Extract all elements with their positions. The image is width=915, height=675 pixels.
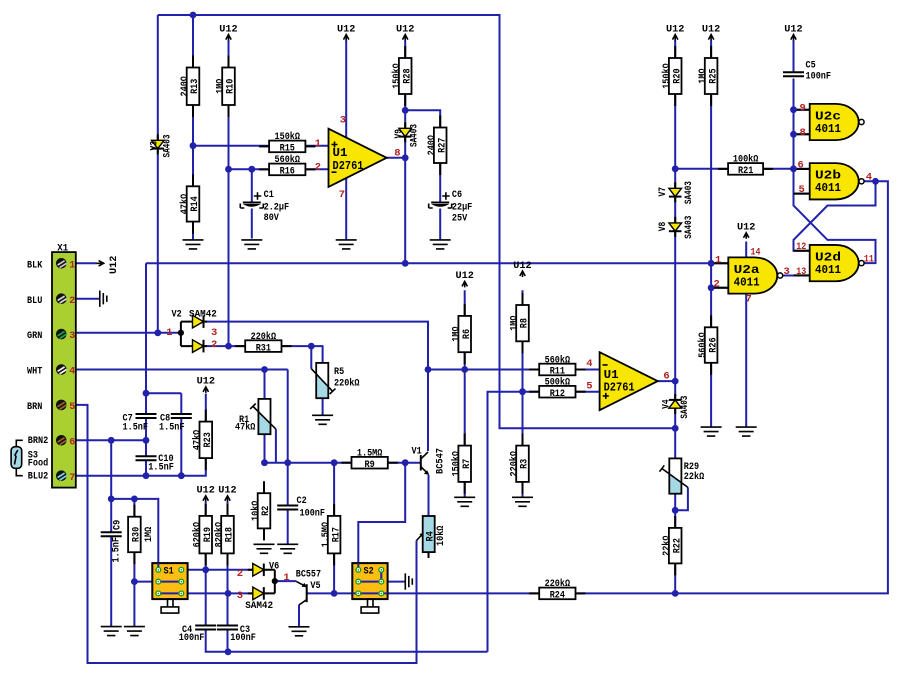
- wire R28 column: [404, 40, 406, 110]
- ground under R30: [124, 627, 145, 636]
- diode V8 SA403: [669, 223, 682, 231]
- X1 pin 2 BLU: [56, 293, 67, 304]
- ground under R7: [454, 497, 475, 506]
- svg-text:100nF: 100nF: [230, 633, 256, 644]
- svg-text:R7: R7: [462, 459, 473, 469]
- svg-text:80V: 80V: [264, 213, 279, 224]
- svg-text:R15: R15: [280, 144, 295, 155]
- svg-text:1MΩ: 1MΩ: [509, 316, 520, 331]
- svg-text:SAM42: SAM42: [245, 601, 273, 612]
- svg-text:47kΩ: 47kΩ: [235, 421, 255, 433]
- wire R17 column: [333, 463, 335, 594]
- junction at (228.5,346.1): [225, 343, 232, 350]
- wire R5 to ground: [322, 399, 324, 415]
- svg-text:R27: R27: [437, 138, 448, 153]
- svg-text:R14: R14: [190, 196, 201, 211]
- svg-text:4011: 4011: [734, 276, 760, 289]
- resistor R27 240R: [434, 128, 447, 164]
- svg-text:R9: R9: [365, 460, 375, 471]
- svg-text:U1: U1: [604, 369, 619, 382]
- junction at (228.5,169.2): [225, 166, 232, 173]
- svg-text:R31: R31: [256, 343, 271, 354]
- svg-text:7: 7: [339, 189, 345, 201]
- resistor R2 10k: [258, 493, 271, 528]
- diode V6 SAM42 pair: [266, 570, 275, 594]
- capacitor C4 100nF: [195, 625, 216, 627]
- ground under R26: [701, 427, 722, 436]
- junction at (134.4,498.9): [131, 496, 138, 503]
- svg-text:V3: V3: [149, 141, 160, 151]
- wire V2 upper diode to R11 row: [206, 322, 600, 370]
- wire BLU2 row up to R23: [76, 458, 206, 476]
- NAND gate U2d 4011: [810, 245, 859, 281]
- diode V4 SA403 (pointing up): [669, 400, 682, 408]
- transistor V5 BC557: [306, 584, 308, 602]
- resistor R14 47k: [187, 186, 200, 221]
- svg-text:D2761: D2761: [604, 382, 635, 395]
- junction at (205.7,569.8): [202, 566, 209, 573]
- junction at (428,369.5): [425, 366, 432, 373]
- svg-text:1.5nF: 1.5nF: [148, 463, 174, 474]
- svg-text:R16: R16: [280, 167, 295, 178]
- svg-text:4: 4: [69, 367, 75, 378]
- NAND gate U2c 4011: [810, 104, 859, 140]
- svg-text:820kΩ: 820kΩ: [213, 522, 225, 548]
- svg-text:3: 3: [340, 114, 346, 126]
- wire R10 column down to V2 lower diode net: [228, 40, 230, 346]
- ground under C2: [277, 544, 298, 553]
- junction at (134.4,581.6): [131, 578, 138, 585]
- svg-text:U12: U12: [197, 486, 215, 497]
- wire V3 branch vertical: [157, 15, 159, 333]
- wire R1 column and wiper: [265, 370, 276, 463]
- svg-text:V5: V5: [310, 581, 320, 592]
- svg-text:2: 2: [211, 339, 217, 351]
- svg-text:100nF: 100nF: [300, 509, 326, 520]
- op-amp U1 D2761 (upper): [329, 129, 387, 187]
- junction at (111.2,498.9): [108, 496, 115, 503]
- junction at (193,15): [190, 12, 197, 19]
- junction at (146,393.2): [143, 390, 150, 397]
- svg-text:150kΩ: 150kΩ: [451, 451, 463, 477]
- svg-text:U12: U12: [337, 24, 355, 35]
- svg-text:150kΩ: 150kΩ: [275, 131, 301, 143]
- svg-text:GRN: GRN: [27, 331, 42, 342]
- wire C9 column: [110, 440, 112, 626]
- svg-text:1MΩ: 1MΩ: [452, 326, 463, 341]
- svg-text:22kΩ: 22kΩ: [661, 536, 673, 556]
- junction at (464.7,369.5): [461, 366, 468, 373]
- junction at (228,651.8): [225, 648, 232, 655]
- svg-text:220kΩ: 220kΩ: [508, 451, 520, 477]
- svg-text:150kΩ: 150kΩ: [661, 63, 673, 89]
- black junction dot V2: [178, 330, 184, 336]
- wire U2c input stubs: [794, 110, 810, 135]
- wire R16 row: [229, 168, 329, 170]
- svg-text:3: 3: [69, 331, 75, 342]
- svg-text:R3: R3: [520, 459, 531, 469]
- wire left column with C7 C10: [145, 263, 147, 475]
- junction at (675.2,381.1): [672, 378, 679, 385]
- svg-text:100nF: 100nF: [806, 71, 832, 82]
- supply U12 above U2a pin14: [744, 233, 749, 239]
- supply U12 above R8: [520, 271, 525, 277]
- op-amp U1 D2761 (lower): [600, 352, 658, 410]
- X1 pin 5 BRN: [56, 400, 67, 411]
- resistor R24 220k: [539, 588, 575, 600]
- junction at (251.8,169.2): [248, 166, 255, 173]
- junction at (522.5,391.7): [519, 388, 526, 395]
- svg-text:11: 11: [864, 253, 874, 265]
- svg-text:R10: R10: [226, 79, 237, 94]
- wire S1 pin row to V6 diodes: [158, 570, 253, 594]
- wire C5 column U2c inputs U2b pin5 cross-couple: [794, 40, 876, 263]
- wire U2a output to U2d pin13: [782, 275, 809, 277]
- svg-text:150kΩ: 150kΩ: [391, 63, 403, 89]
- resistor R3 220k: [516, 446, 529, 482]
- svg-text:6: 6: [69, 437, 75, 448]
- svg-text:3: 3: [237, 590, 243, 602]
- resistor R13 240R: [187, 68, 200, 106]
- wire U2b pin5 stub: [794, 193, 810, 195]
- svg-text:U12: U12: [218, 486, 236, 497]
- wire row to S1 pin1: [111, 499, 158, 570]
- capacitor C10 1.5nF: [136, 455, 157, 457]
- switch S3 Food (reed): [11, 447, 22, 469]
- supply U12 above R20: [673, 35, 678, 41]
- resistor R8 1M: [516, 305, 529, 341]
- svg-text:R20: R20: [672, 68, 683, 83]
- wire S1 middle row: [134, 581, 181, 583]
- trimmer R5 220k: [316, 363, 328, 398]
- svg-text:C6: C6: [452, 190, 462, 201]
- svg-text:240Ω: 240Ω: [427, 135, 438, 155]
- svg-text:3: 3: [211, 327, 217, 339]
- trimmer R1 47k: [258, 399, 270, 434]
- svg-text:R30: R30: [132, 527, 143, 542]
- svg-text:22µF: 22µF: [452, 202, 472, 213]
- switch S2: [352, 563, 387, 599]
- diode V9 SA403: [399, 128, 412, 136]
- svg-text:BLK: BLK: [27, 260, 42, 271]
- wire X1 pin1 to U12: [76, 262, 97, 264]
- wire R23 supply lead: [205, 394, 207, 422]
- junction at (675.2,510.3): [672, 507, 679, 514]
- X1 pin 6 BRN2: [56, 435, 67, 446]
- resistor R23 47k: [200, 422, 213, 459]
- svg-text:U12: U12: [197, 377, 215, 388]
- resistor R26 560k: [705, 327, 718, 363]
- svg-text:3: 3: [784, 266, 790, 278]
- resistor R18 820k: [221, 516, 234, 554]
- junction at (181.3,475.7): [178, 472, 185, 479]
- svg-text:R24: R24: [550, 591, 565, 602]
- svg-text:R6: R6: [462, 329, 473, 339]
- ground at X1 pin2 (rotated): [100, 291, 107, 307]
- svg-text:R21: R21: [738, 166, 753, 177]
- svg-text:V9: V9: [394, 129, 405, 139]
- junction at (793.5,168.8): [790, 165, 797, 172]
- wire R18 column to C3: [227, 502, 229, 626]
- wire junction R9 down to S2 pin1: [358, 463, 405, 570]
- resistor R15 150k: [269, 141, 305, 153]
- svg-text:4: 4: [866, 171, 872, 183]
- svg-text:1.5MΩ: 1.5MΩ: [357, 449, 383, 460]
- junction at (228,593.4): [225, 590, 232, 597]
- resistor R31 220k: [245, 340, 281, 352]
- ground under C9: [101, 627, 122, 636]
- svg-text:R23: R23: [203, 432, 214, 447]
- supply U12 above R18: [225, 496, 230, 502]
- ground right of S2 (rotated): [405, 573, 412, 589]
- svg-text:1.5MΩ: 1.5MΩ: [321, 522, 332, 548]
- ground under U1a pin7: [336, 240, 357, 249]
- svg-text:U12: U12: [396, 24, 414, 35]
- wire WHT row: [76, 369, 288, 371]
- X1 pin 1 BLK: [56, 258, 67, 269]
- wire R15 row: [193, 145, 329, 147]
- wire U1a output column: [387, 110, 406, 263]
- capacitor C8 1.5nF: [171, 413, 192, 415]
- svg-text:10kΩ: 10kΩ: [250, 501, 262, 521]
- svg-text:R17: R17: [331, 527, 342, 542]
- svg-text:14: 14: [751, 246, 761, 258]
- wire R4 wiper to BRN net and bottom rail: [76, 405, 417, 663]
- junction at (675.2,428.3): [672, 425, 679, 432]
- supply U12 above R10: [226, 35, 231, 41]
- supply U12 above R19: [203, 496, 208, 502]
- junction at (146,440.3): [143, 437, 150, 444]
- svg-text:U12: U12: [219, 24, 237, 35]
- svg-text:1MΩ: 1MΩ: [698, 68, 709, 83]
- svg-text:R25: R25: [708, 68, 719, 83]
- ground under C6: [430, 240, 451, 249]
- svg-text:4011: 4011: [815, 264, 841, 277]
- svg-text:U2c: U2c: [815, 110, 841, 123]
- svg-text:12: 12: [796, 241, 806, 253]
- wire R8 R3 column: [522, 290, 524, 497]
- svg-text:1: 1: [315, 138, 321, 150]
- svg-text:220kΩ: 220kΩ: [251, 331, 277, 343]
- junction at (334.1,462.7): [331, 459, 338, 466]
- svg-text:V2: V2: [172, 310, 182, 321]
- wire V2 lower diode to R31 and R5: [206, 346, 323, 369]
- svg-text:220kΩ: 220kΩ: [545, 578, 571, 590]
- wire S2 ground lead: [381, 581, 405, 583]
- junction at (334.1,593.4): [331, 590, 338, 597]
- wire V1 collector and emitter: [427, 370, 430, 517]
- wire U2a supply and pin7 ground: [745, 242, 747, 427]
- resistor R11 560k: [539, 364, 575, 376]
- svg-text:47kΩ: 47kΩ: [179, 194, 191, 214]
- svg-text:BRN2: BRN2: [28, 436, 48, 447]
- X1 pin 7 BLU2: [56, 470, 67, 481]
- resistor R6 1M: [458, 316, 471, 352]
- wire X1 pin2 to ground: [76, 298, 99, 300]
- svg-text:V4: V4: [662, 399, 673, 409]
- junction at (405.2,157.8): [402, 154, 409, 161]
- svg-text:220kΩ: 220kΩ: [334, 378, 360, 390]
- junction at (405.2,462.7): [402, 459, 409, 466]
- svg-text:1.5nF: 1.5nF: [159, 422, 185, 433]
- svg-text:R4: R4: [426, 531, 437, 541]
- resistor R20 150k: [669, 58, 682, 94]
- svg-text:5: 5: [799, 184, 805, 196]
- svg-text:U12: U12: [513, 261, 531, 272]
- junction at (675.2,593.4): [672, 590, 679, 597]
- junction at (793.5,134.3): [790, 131, 797, 138]
- wire R19 column to C4: [205, 502, 207, 626]
- svg-text:BC557: BC557: [296, 570, 321, 581]
- svg-text:SA403: SA403: [680, 396, 691, 419]
- supply U12 above R28: [403, 35, 408, 41]
- svg-text:V7: V7: [658, 187, 669, 197]
- trimmer R4 10k: [423, 516, 435, 552]
- supply U12 above U1a pin3: [344, 35, 349, 41]
- svg-text:S2: S2: [364, 567, 374, 578]
- junction at (311.3,346.1): [308, 343, 315, 350]
- svg-text:620kΩ: 620kΩ: [192, 522, 204, 548]
- svg-text:6: 6: [663, 371, 669, 383]
- resistor R12 500k: [539, 386, 575, 398]
- svg-text:100nF: 100nF: [179, 633, 205, 644]
- svg-text:WHT: WHT: [27, 367, 42, 378]
- diode V3 SA403: [152, 140, 165, 148]
- svg-text:1: 1: [715, 254, 721, 266]
- svg-text:R12: R12: [550, 389, 565, 400]
- junction at (287.7,462.7): [284, 459, 291, 466]
- wire R25 R26 column with U2a inputs: [710, 40, 712, 427]
- wire R13-R14 column: [192, 15, 194, 240]
- wire base row 462 to V1: [265, 462, 421, 464]
- svg-text:1.5nF: 1.5nF: [111, 537, 122, 563]
- resistor R9 1.5M: [352, 457, 388, 469]
- svg-text:U2a: U2a: [734, 264, 760, 277]
- svg-text:560kΩ: 560kΩ: [545, 354, 571, 366]
- NAND gate U2a 4011: [728, 257, 777, 293]
- capacitor C2 100nF: [277, 505, 298, 507]
- svg-text:1MΩ: 1MΩ: [144, 527, 155, 542]
- resistor R28 150k: [399, 58, 412, 94]
- svg-text:560kΩ: 560kΩ: [275, 154, 301, 166]
- wire R29 wiper: [675, 487, 688, 510]
- junction at (711.1,287.8): [708, 284, 715, 291]
- svg-text:V8: V8: [658, 222, 669, 232]
- svg-text:22kΩ: 22kΩ: [684, 471, 704, 483]
- svg-text:R26: R26: [708, 337, 719, 352]
- svg-text:240Ω: 240Ω: [180, 76, 191, 96]
- resistor R10 1M: [222, 68, 235, 106]
- NAND gate U2b 4011: [810, 163, 859, 199]
- svg-text:U12: U12: [784, 24, 802, 35]
- X1 pin 4 WHT: [56, 364, 67, 375]
- wire V5 emitter and collector leads: [275, 581, 299, 626]
- capacitor C7 1.5nF: [136, 413, 157, 415]
- svg-text:4011: 4011: [815, 182, 841, 195]
- junction at (405.2,110.3): [402, 107, 409, 114]
- svg-text:8: 8: [394, 147, 400, 159]
- svg-text:1: 1: [69, 260, 75, 271]
- U12 supply at X1 pin1 (rotated): [97, 261, 104, 266]
- capacitor C3 100nF: [217, 625, 238, 627]
- svg-text:2: 2: [237, 568, 243, 580]
- wire top rail from V3 corner to right feedback loop: [158, 15, 675, 428]
- resistor R16 560k: [269, 164, 305, 176]
- svg-text:V1: V1: [412, 446, 422, 457]
- transistor V1 BC547: [420, 455, 422, 471]
- svg-text:R2: R2: [261, 506, 272, 516]
- junction at (157.8,332.8): [154, 329, 161, 336]
- resistor R21 100k: [728, 163, 763, 175]
- junction at (146,475.7): [143, 472, 150, 479]
- svg-text:2.2µF: 2.2µF: [264, 202, 290, 213]
- svg-text:R8: R8: [520, 318, 531, 328]
- supply U12 above C5: [791, 35, 796, 41]
- resistor R25 1M: [705, 58, 718, 94]
- junction at (875.5,181.3): [872, 178, 879, 185]
- junction at (264.5,369.5): [261, 366, 268, 373]
- capacitor C9 1.5nF (rotated labels): [101, 531, 122, 533]
- capacitor C5 100nF: [783, 71, 804, 73]
- wire R21 row: [675, 168, 793, 170]
- svg-text:U1: U1: [333, 147, 348, 160]
- svg-text:7: 7: [746, 294, 752, 306]
- svg-text:5: 5: [69, 402, 75, 413]
- svg-text:1: 1: [166, 327, 172, 339]
- svg-text:S1: S1: [164, 567, 174, 578]
- svg-text:C2: C2: [297, 496, 307, 507]
- junction at (793.5,109.7): [790, 106, 797, 113]
- svg-text:U12: U12: [666, 24, 684, 35]
- svg-text:U2d: U2d: [815, 252, 841, 265]
- svg-text:500kΩ: 500kΩ: [545, 377, 571, 389]
- wire C4 C3 bottom rail to R12 plus input: [206, 392, 540, 652]
- svg-text:U2b: U2b: [815, 170, 841, 183]
- svg-text:U12: U12: [737, 223, 755, 234]
- svg-text:C5: C5: [806, 61, 816, 72]
- connector X1: [52, 252, 76, 488]
- wire U2a pin1 pin2 stubs: [711, 263, 728, 288]
- svg-text:4011: 4011: [815, 123, 841, 136]
- svg-text:SA403: SA403: [684, 181, 695, 204]
- junction at (111.2,440.3): [108, 437, 115, 444]
- svg-text:SA403: SA403: [162, 135, 173, 158]
- ground under R3: [512, 497, 533, 506]
- svg-text:U12: U12: [109, 256, 120, 274]
- svg-text:100kΩ: 100kΩ: [733, 154, 759, 166]
- wire C1 leads: [251, 169, 253, 238]
- junction at (264.5,462.7): [261, 459, 268, 466]
- supply U12 above R6: [462, 281, 467, 287]
- resistor R19 620k: [199, 516, 212, 554]
- svg-text:R22: R22: [672, 538, 683, 553]
- diode V2 SAM42 pair: [181, 322, 189, 347]
- svg-text:SA403: SA403: [684, 216, 695, 239]
- wire C2 column: [287, 370, 289, 544]
- capacitor C6 22uF: [431, 202, 449, 204]
- wire U1b output column V4 R29 R22: [658, 40, 676, 593]
- black junction dot V6: [272, 578, 278, 584]
- svg-text:7: 7: [69, 473, 75, 484]
- ground under U2a pin7: [736, 427, 757, 436]
- svg-text:U12: U12: [456, 271, 474, 282]
- wire U2b output to right rail and bottom row R24: [576, 181, 888, 593]
- resistor R22 22k: [669, 528, 682, 564]
- svg-text:SAM42: SAM42: [189, 310, 217, 321]
- diode V7 SA403: [669, 188, 682, 196]
- svg-text:13: 13: [796, 266, 806, 278]
- X1 pin 3 GRN: [56, 329, 67, 340]
